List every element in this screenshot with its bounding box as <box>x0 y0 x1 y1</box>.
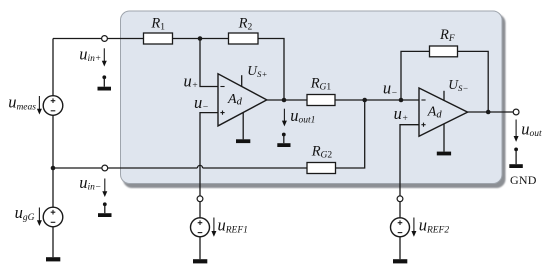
op-amp U1 triangle <box>218 74 267 126</box>
resistor RF <box>430 46 458 57</box>
ground (u_in+ reference) <box>98 75 112 90</box>
wire: op-amp1 non-inverting input down to u_REF1 terminal <box>200 113 218 196</box>
source u_REF1 <box>191 218 210 237</box>
wire: u_REF1 terminal to source <box>199 202 201 218</box>
wire: u_gG bottom to ground <box>52 227 54 257</box>
ground (u_REF2) <box>393 259 407 263</box>
arrow u_REF1 <box>211 218 216 237</box>
source u_REF2 <box>391 218 410 237</box>
terminal u_in+ <box>102 36 108 42</box>
wire: op-amp2 output to output terminal <box>468 111 514 113</box>
wire: R1 to node A <box>173 38 201 40</box>
wire: op-amp2 non-inverting input down to u_REF2 terminal <box>400 125 419 196</box>
resistor RG2 <box>307 163 336 174</box>
wire: node F down to u_gG <box>52 168 54 207</box>
ground (op-amp U1 supply) <box>236 139 250 143</box>
op-amp U2 supply pin (bottom) <box>443 124 445 152</box>
wire: node C down to R_G2 right end <box>336 100 365 168</box>
op-amp U2 triangle <box>419 88 468 136</box>
arrow u_REF2 <box>411 218 416 237</box>
node F (left rail junction) <box>51 166 56 171</box>
arrow u_gG <box>37 208 42 227</box>
wire: u_in+ terminal to R1 <box>107 38 143 40</box>
arrow u_meas <box>37 96 42 115</box>
ground (u_gG) <box>46 257 60 261</box>
op-amp U2 plus pin mark <box>421 123 425 127</box>
node B (op-amp1 output junction) <box>282 98 287 103</box>
terminal u_in- <box>102 165 108 171</box>
ground (u_REF1) <box>193 259 207 263</box>
instrumentation-amplifier block background <box>121 11 503 184</box>
arrow u_out1 <box>282 109 287 127</box>
terminal u_out <box>513 109 519 115</box>
wire: R_G1 to op-amp2 inverting input <box>335 99 419 101</box>
svg-text:GND: GND <box>510 173 537 187</box>
node D (feedback junction) <box>399 98 404 103</box>
op-amp U1 plus pin mark <box>220 111 224 115</box>
wire: node F to u_in- terminal <box>53 167 102 169</box>
wire: R2 right, corner down to node B <box>258 39 284 101</box>
wire: u_meas top vertical <box>52 39 54 96</box>
op-amp U1 minus pin mark <box>220 86 224 88</box>
wire: u_REF1 bottom to ground <box>199 237 201 259</box>
arrow u_in- <box>102 179 107 198</box>
op-amp U1 positive supply pin <box>241 75 243 86</box>
node A (junction R1/R2) <box>198 36 203 41</box>
resistor R1 <box>144 33 173 44</box>
ground (u_out reference) <box>509 148 523 169</box>
wire: node A down to op-amp1 inverting input <box>200 39 218 87</box>
wire: u_REF2 bottom to ground <box>399 237 401 259</box>
wire: op-amp1 output to R_G1 <box>267 99 307 101</box>
wire: u_meas bottom to node F <box>52 115 54 168</box>
node C (R_G1 / R_G2 junction) <box>362 98 367 103</box>
wire: hop to R_G2 <box>203 167 307 169</box>
resistor R2 <box>229 33 259 44</box>
wire: u_REF2 terminal to source <box>399 202 401 218</box>
terminal u_REF1 <box>197 196 203 202</box>
ground (u_out1 reference) <box>277 133 290 147</box>
ground (op-amp U2 supply) <box>437 152 451 156</box>
wire: R_F right end down to op-amp2 output node <box>458 51 489 112</box>
instrumentation-amplifier block shadow <box>123 14 506 188</box>
wire: u_in- terminal to crossover hop <box>108 167 198 169</box>
wire crossover hop over u_REF1 branch <box>197 165 202 168</box>
terminal u_REF2 <box>397 196 403 202</box>
node E (op-amp2 output junction) <box>486 110 491 115</box>
wire: feedback node D up and to R_F <box>401 51 430 100</box>
resistor RG1 <box>307 95 335 106</box>
source u_gG <box>43 207 63 227</box>
op-amp U2 minus pin mark <box>421 99 425 101</box>
arrow u_out <box>514 120 519 142</box>
source u_meas <box>43 96 63 116</box>
wire: node A to R2 <box>200 38 229 40</box>
op-amp U1 negative supply pin <box>242 112 244 139</box>
op-amp U2 negative supply pin (top) <box>443 91 445 101</box>
wire: u_meas top to u_in+ terminal (top rail left) <box>53 38 102 40</box>
arrow u_in+ <box>102 48 107 66</box>
ground (u_in- reference) <box>98 202 112 217</box>
